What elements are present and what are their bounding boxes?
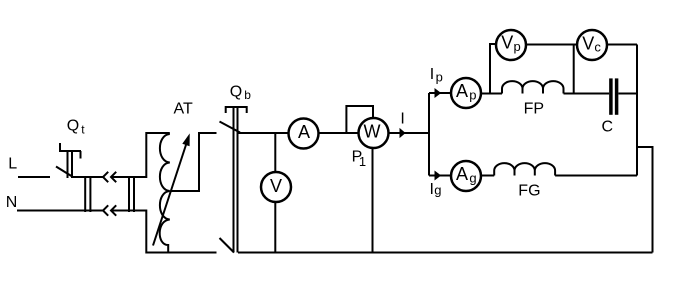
svg-text:p: p [469,87,476,102]
svg-text:p: p [514,39,521,54]
wire W to node I [389,132,429,134]
current arrow Ip [435,89,440,97]
wire Ag to FG [481,175,494,177]
AT tap wire to Qb [171,133,217,191]
inductor FP [502,81,564,93]
node N [6,194,18,211]
ammeter A [289,119,319,149]
svg-text:b: b [244,88,251,102]
ammeter Ap [451,78,481,108]
svg-text:g: g [434,182,441,197]
wire Qt to board1 [73,176,103,178]
svg-text:A: A [456,81,468,101]
svg-text:FP: FP [524,101,544,118]
wire Ig branch [429,175,451,177]
node L [8,156,17,173]
AT winding [160,134,170,253]
wire N input [17,210,103,212]
Qb bottom blade [220,238,235,253]
svg-text:1: 1 [359,154,366,169]
node FP-C junction riser [573,45,575,94]
label C [602,119,614,136]
svg-text:g: g [469,170,476,185]
svg-text:Q: Q [67,118,79,135]
svg-text:I: I [430,66,434,83]
voltmeter Vp [490,30,577,94]
svg-text:V: V [501,33,513,53]
wire FG to right rail [555,175,637,177]
terminal board X2 [129,176,134,212]
label Ip [430,66,443,84]
svg-text:V: V [270,176,282,196]
svg-text:AT: AT [174,101,193,118]
wire AT left bottom riser [146,210,216,253]
Qb top blade [220,122,241,133]
label P1 [352,149,367,169]
label Qb [230,83,252,101]
wire Ip branch [429,92,451,94]
svg-text:N: N [6,194,18,211]
breaker Qb [220,107,248,253]
current arrow Ig [435,172,440,180]
right rail [636,45,638,176]
left branch rail [428,93,430,176]
svg-text:I: I [400,111,404,128]
current arrow I [400,129,405,137]
plug arrows on L wire [103,172,116,182]
wire L input [18,176,50,178]
wattmeter W [346,106,388,253]
W voltage coil loop [346,106,373,133]
wire W down to return [372,148,374,252]
svg-text:V: V [582,33,594,53]
svg-text:A: A [298,122,310,142]
wire A to W [319,132,359,134]
svg-text:L: L [8,156,17,173]
plug arrows on N wire [103,205,116,215]
terminal board X1 [85,176,90,212]
wire L board2 to AT [111,176,146,178]
AT wiper arrow [153,145,186,246]
label FG [518,183,540,200]
capacitor C [611,78,637,114]
autotransformer AT [146,133,216,253]
svg-text:Q: Q [230,83,242,100]
label AT [174,101,193,118]
return stub from right rail [637,147,653,253]
wire N board2 to AT [111,210,146,212]
label FP [524,101,544,118]
wire Ap to FP [481,93,502,95]
label Qt [67,118,86,137]
voltmeter V branch [261,133,291,253]
svg-text:A: A [456,164,468,184]
voltmeter Vc [577,30,637,60]
ammeter Ag [451,161,481,191]
svg-text:c: c [594,40,601,55]
svg-text:t: t [81,122,85,136]
wire AT left top riser [146,133,170,178]
svg-text:p: p [436,69,443,84]
label Ig [430,181,442,198]
bottom return wire [238,252,653,254]
label I [400,111,404,128]
svg-text:C: C [602,119,614,136]
wire FP to capacitor [564,93,610,95]
svg-text:FG: FG [518,183,540,200]
inductor FG [494,163,555,175]
svg-text:W: W [364,122,381,142]
switch Qt [56,143,81,178]
wire Qb to ammeter A [239,132,289,134]
